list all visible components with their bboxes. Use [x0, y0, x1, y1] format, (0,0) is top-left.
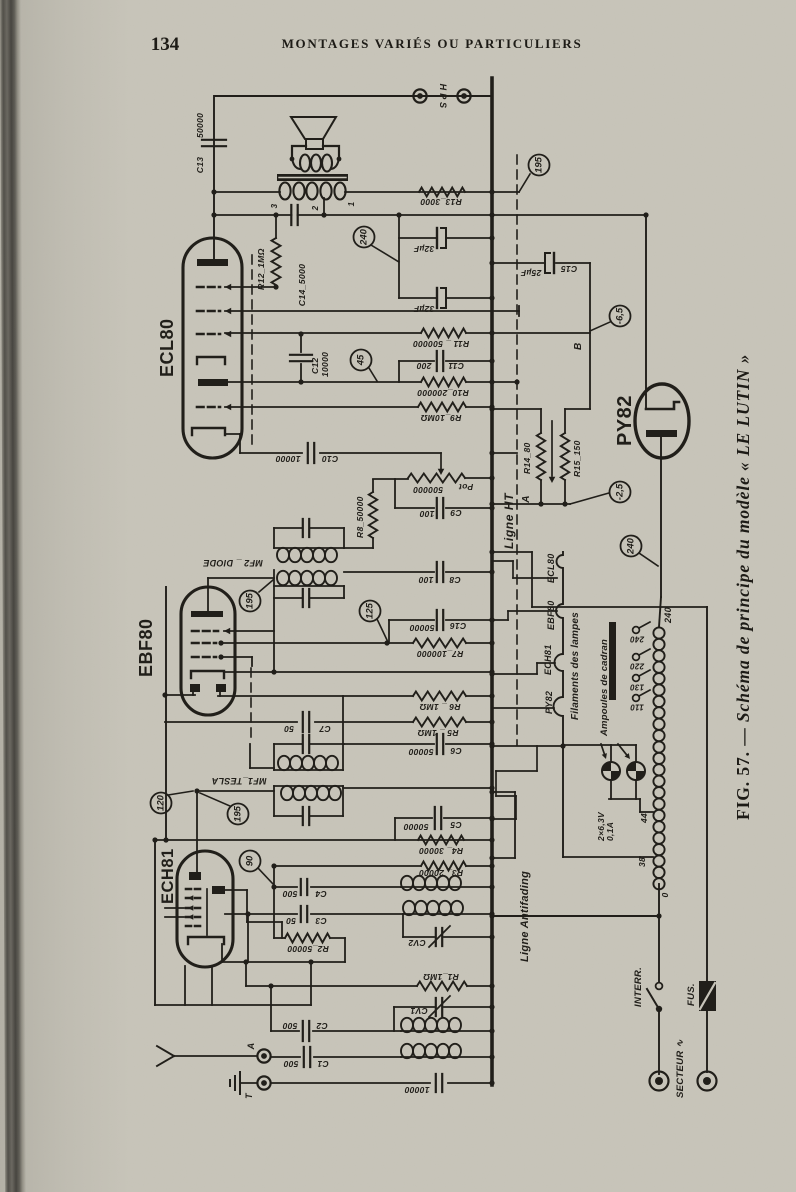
- svg-text:MF1_TESLA: MF1_TESLA: [211, 776, 266, 786]
- svg-text:R4_ 30000: R4_ 30000: [419, 846, 463, 856]
- svg-text:R15_150: R15_150: [572, 440, 582, 477]
- svg-text:EBF80: EBF80: [546, 600, 556, 630]
- svg-text:240: 240: [630, 635, 645, 644]
- svg-text:100: 100: [419, 509, 434, 519]
- svg-text:195: 195: [534, 156, 545, 173]
- svg-text:Pot: Pot: [458, 482, 473, 492]
- svg-text:CV2: CV2: [408, 938, 425, 948]
- svg-text:R1_1MΩ: R1_1MΩ: [423, 972, 459, 982]
- svg-text:R12_1MΩ: R12_1MΩ: [256, 248, 266, 290]
- svg-text:MONTAGES VARIÉS OU PARTICULIER: MONTAGES VARIÉS OU PARTICULIERS: [282, 36, 583, 51]
- svg-text:32µF: 32µF: [413, 244, 434, 254]
- svg-text:ECH81: ECH81: [543, 644, 553, 675]
- svg-text:C5: C5: [450, 820, 461, 830]
- svg-text:1: 1: [347, 201, 356, 206]
- svg-text:10000: 10000: [404, 1085, 429, 1095]
- svg-text:50000: 50000: [403, 822, 428, 832]
- svg-text:50: 50: [284, 724, 294, 734]
- svg-text:220: 220: [630, 662, 645, 671]
- svg-text:32µF: 32µF: [413, 304, 434, 314]
- svg-text:R6 _ 1MΩ: R6 _ 1MΩ: [419, 702, 460, 712]
- svg-text:C7: C7: [318, 724, 330, 734]
- svg-text:INTERR.: INTERR.: [633, 967, 644, 1007]
- svg-text:50: 50: [286, 916, 296, 926]
- svg-text:50000: 50000: [409, 623, 434, 633]
- svg-text:C6: C6: [450, 746, 461, 756]
- svg-text:C1: C1: [317, 1059, 328, 1069]
- svg-text:CV1: CV1: [410, 1006, 427, 1016]
- svg-text:195: 195: [233, 805, 244, 822]
- svg-text:R11 _ 500000: R11 _ 500000: [413, 339, 469, 349]
- svg-text:C16: C16: [450, 621, 467, 631]
- svg-text:44: 44: [639, 813, 649, 824]
- svg-text:0: 0: [660, 892, 670, 897]
- svg-text:500: 500: [282, 889, 297, 899]
- svg-text:45: 45: [356, 354, 367, 366]
- svg-text:-6,5: -6,5: [615, 307, 626, 324]
- svg-text:C3: C3: [315, 916, 326, 926]
- svg-text:R2_50000: R2_50000: [287, 944, 329, 954]
- svg-text:200: 200: [416, 361, 432, 371]
- svg-text:R5 _ 1MΩ: R5 _ 1MΩ: [417, 728, 458, 738]
- svg-text:3: 3: [270, 203, 279, 208]
- svg-text:EBF80: EBF80: [136, 618, 156, 677]
- svg-text:FIG. 57. — Schéma de principe: FIG. 57. — Schéma de principe du modèle …: [733, 354, 753, 820]
- svg-text:50000: 50000: [408, 747, 433, 757]
- svg-text:110: 110: [630, 703, 644, 712]
- svg-text:R13_3000: R13_3000: [420, 197, 462, 207]
- svg-text:25µF: 25µF: [520, 268, 542, 278]
- svg-text:H P S: H P S: [438, 84, 448, 109]
- svg-text:A: A: [521, 495, 532, 504]
- svg-text:SECTEUR ∿: SECTEUR ∿: [675, 1039, 686, 1098]
- svg-text:C9: C9: [450, 508, 461, 518]
- svg-text:C11: C11: [448, 361, 464, 371]
- svg-text:ECL80: ECL80: [157, 318, 177, 377]
- svg-text:R7_100000: R7_100000: [417, 649, 464, 659]
- svg-text:PY82: PY82: [614, 395, 636, 446]
- svg-text:B: B: [573, 342, 584, 350]
- svg-text:C8: C8: [449, 575, 460, 585]
- svg-text:R14_80: R14_80: [522, 442, 532, 474]
- svg-text:0,1A: 0,1A: [605, 822, 615, 841]
- svg-text:90: 90: [245, 855, 256, 866]
- svg-text:240: 240: [626, 537, 637, 555]
- svg-text:134: 134: [151, 34, 180, 55]
- svg-text:PY82: PY82: [544, 691, 554, 714]
- svg-text:R8_50000: R8_50000: [355, 496, 365, 538]
- svg-text:120: 120: [156, 794, 167, 811]
- svg-text:130: 130: [630, 683, 644, 692]
- svg-text:C2: C2: [316, 1021, 327, 1031]
- svg-text:A: A: [246, 1043, 256, 1051]
- svg-text:C4: C4: [315, 889, 326, 899]
- svg-text:R9_10MΩ: R9_10MΩ: [421, 413, 462, 423]
- svg-text:C14_5000: C14_5000: [297, 264, 307, 307]
- svg-text:125: 125: [365, 602, 376, 619]
- svg-text:195: 195: [245, 592, 256, 609]
- svg-text:ECH81: ECH81: [159, 848, 177, 904]
- svg-text:240: 240: [359, 228, 370, 246]
- svg-text:Ligne HT: Ligne HT: [502, 492, 516, 549]
- svg-text:10000: 10000: [275, 454, 300, 464]
- svg-text:R10_200000: R10_200000: [417, 388, 469, 398]
- svg-text:38: 38: [637, 857, 647, 867]
- svg-text:10000: 10000: [320, 352, 330, 377]
- svg-text:C15: C15: [561, 264, 578, 274]
- svg-text:C13: C13: [195, 157, 205, 174]
- svg-text:100: 100: [418, 575, 433, 585]
- svg-text:Filaments des lampes: Filaments des lampes: [570, 612, 581, 720]
- svg-text:Ampoules de cadran: Ampoules de cadran: [599, 639, 610, 737]
- svg-text:2: 2: [311, 205, 320, 211]
- svg-text:500000: 500000: [413, 485, 443, 495]
- svg-text:FUS.: FUS.: [686, 983, 697, 1006]
- svg-text:C12: C12: [310, 358, 320, 375]
- svg-text:50000: 50000: [195, 113, 205, 138]
- svg-text:MF2 _ DIODE: MF2 _ DIODE: [202, 558, 263, 568]
- svg-text:C10: C10: [322, 454, 339, 464]
- svg-text:500: 500: [283, 1059, 298, 1069]
- svg-text:500: 500: [282, 1021, 297, 1031]
- svg-text:-2,5: -2,5: [615, 483, 626, 500]
- svg-text:240: 240: [663, 607, 673, 624]
